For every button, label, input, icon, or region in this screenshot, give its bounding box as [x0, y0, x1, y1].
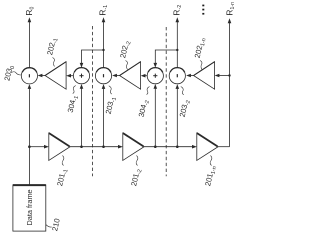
ellipsis dots [202, 5, 204, 15]
label 210 [50, 218, 62, 232]
svg-text:2030: 2030 [2, 64, 16, 82]
leader 203_1 [109, 86, 112, 94]
adder 203_2 [169, 68, 185, 84]
wire branch R-2 into 304_2 top [154, 50, 178, 68]
wire R1-n output column [228, 18, 232, 146]
wire bus up into 304_2 [154, 84, 158, 147]
svg-text:201-1: 201-1 [55, 168, 69, 188]
leader 203_2 [181, 87, 184, 95]
svg-text:201-2: 201-2 [129, 168, 143, 188]
label R0 [24, 7, 36, 16]
amplifier 201_1-n [197, 133, 218, 160]
node junction on R1-n column [228, 74, 230, 76]
wire bus segment data to 201_1 [29, 145, 48, 149]
label 203_2 [178, 99, 192, 119]
label 202_2 [118, 40, 132, 60]
node junction R-1 branch [102, 49, 104, 51]
leader 201_2 [136, 156, 138, 166]
svg-text:2021-n: 2021-n [193, 37, 208, 60]
svg-text:R-1: R-1 [98, 5, 110, 16]
label 202_1-n [193, 37, 208, 60]
amplifier 201_1 [49, 133, 70, 160]
wire branch R-1 into 304_1 top [80, 50, 104, 68]
svg-text:202-1: 202-1 [45, 37, 59, 57]
wire from data junction up into 203_0 [28, 84, 32, 147]
leader 203_0 [11, 72, 21, 75]
svg-text:304-2: 304-2 [137, 99, 151, 119]
leader 210 [46, 225, 52, 228]
leader 304_1 [73, 86, 76, 94]
label 201_1 [55, 168, 69, 188]
leader 201_1 [62, 156, 64, 166]
amplifier 201_2 [123, 133, 144, 160]
wire R1-n column into 202_1-n [215, 74, 230, 78]
label 201_1-n [203, 165, 218, 188]
svg-text:R0: R0 [24, 7, 36, 16]
node bus junction at data feed [28, 145, 31, 148]
adder 203_0 [21, 68, 37, 84]
wire bus segment 201_1 to 201_2 [70, 145, 123, 149]
label R-2 [171, 5, 183, 16]
wire bus segment 201_1-n to R1-n column [218, 146, 229, 148]
wire 304_1 output to 202_1 [66, 74, 73, 78]
label 202_1 [45, 37, 59, 57]
label R1-n [225, 2, 237, 16]
label R-1 [98, 5, 110, 16]
wire bus up into 203_2 [176, 84, 180, 147]
dashed boundary line 1 [92, 26, 94, 176]
leader 304_2 [147, 87, 150, 95]
adder 304_1 [73, 68, 89, 84]
svg-text:203-1: 203-1 [104, 96, 118, 116]
svg-text:210: 210 [50, 218, 62, 232]
dashed boundary line 2 [165, 27, 167, 176]
wire R-1 output column [102, 17, 106, 67]
node junction R-2 branch [176, 49, 178, 51]
amplifier 202_1-n [194, 62, 215, 89]
label 304_2 [137, 99, 151, 119]
label 203_0 [2, 64, 16, 82]
label Data frame [25, 189, 34, 225]
label 201_2 [129, 168, 143, 188]
wire R-2 output column [176, 17, 180, 67]
leader 202_2 [126, 61, 128, 70]
node bus junction under 304_1 [80, 145, 83, 148]
adder 304_2 [147, 68, 163, 84]
wire bus up into 203_1 [102, 84, 106, 147]
svg-text:202-2: 202-2 [118, 40, 132, 60]
data frame box 210 [13, 185, 46, 231]
adder 203_1 [95, 68, 111, 84]
svg-text:2011-n: 2011-n [203, 165, 218, 188]
wire 304_2 output to 202_2 [141, 74, 148, 78]
leader 202_1 [53, 58, 55, 67]
node bus junction under 203_2 [176, 145, 179, 148]
wire R0 output column [28, 17, 32, 68]
svg-text:304-1: 304-1 [66, 94, 80, 114]
amplifier 202_1 [45, 62, 66, 89]
leader 201_1-n [210, 156, 212, 166]
svg-text:203-2: 203-2 [178, 99, 192, 119]
amplifier 202_2 [120, 62, 141, 89]
wire data frame feed [28, 147, 30, 185]
label 203_1 [104, 96, 118, 116]
node bus junction under 304_2 [154, 145, 157, 148]
wire 202_2 output to 203_1 [112, 74, 119, 78]
node bus junction under 203_1 [102, 145, 105, 148]
wire bus segment 201_2 to 201_1-n [144, 145, 197, 149]
wire 202_1 output to 203_0 [38, 74, 45, 78]
svg-text:R-2: R-2 [171, 5, 183, 16]
svg-text:R1-n: R1-n [225, 2, 237, 16]
label 304_1 [66, 94, 80, 114]
wire bus up into 304_1 [80, 84, 84, 147]
svg-text:Data frame: Data frame [25, 189, 34, 225]
leader 202_1-n [200, 61, 202, 70]
wire 202_1-n output to 203_2 [186, 74, 193, 78]
